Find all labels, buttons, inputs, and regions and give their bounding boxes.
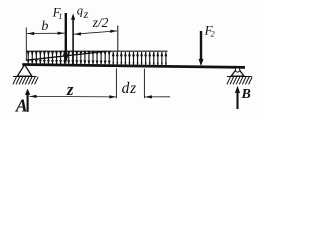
dimension z line — [29, 95, 116, 98]
force F1 arrow — [65, 13, 67, 58]
extension line at section z (above beam) — [117, 26, 119, 52]
dimension z/2 right arrowhead — [110, 30, 117, 33]
extension line at support A / load left edge — [25, 28, 27, 61]
extension line at z+dz (below beam) — [143, 69, 145, 99]
reaction arrow at A — [27, 94, 29, 112]
dimension z right arrowhead — [109, 95, 116, 98]
ground line A — [13, 76, 37, 78]
svg-text:b: b — [41, 19, 48, 34]
resultant qz arrow (upward) — [72, 19, 74, 65]
svg-text:dz: dz — [122, 80, 137, 97]
dimension z/2 line — [74, 31, 117, 34]
ground hatching A — [13, 77, 38, 85]
extension line at z (below beam) — [115, 68, 117, 98]
distributed load arrows — [27, 51, 168, 65]
svg-text:B: B — [241, 87, 251, 102]
ground hatching B — [227, 77, 252, 85]
svg-text:z: z — [66, 80, 74, 99]
svg-text:z: z — [83, 7, 89, 21]
distributed load top line — [26, 50, 167, 52]
dimension z/2 left arrowhead — [74, 32, 81, 35]
svg-text:1: 1 — [58, 11, 62, 21]
load intensity diagonal line — [27, 51, 107, 60]
svg-text:q: q — [77, 3, 83, 17]
ground line B — [227, 76, 252, 78]
svg-text:A: A — [15, 95, 28, 115]
force F2 arrow — [200, 31, 202, 60]
support A (pin) — [17, 65, 32, 77]
dimension b left arrowhead — [27, 32, 34, 35]
reaction arrow at B — [236, 92, 238, 109]
support B (roller) — [231, 68, 244, 77]
dimension b right arrowhead — [58, 32, 65, 35]
beam AB — [22, 65, 245, 68]
svg-text:z/2: z/2 — [92, 15, 109, 30]
roller circle B — [235, 68, 239, 72]
dimension b line — [27, 32, 65, 34]
dimension z left arrowhead — [30, 95, 37, 98]
dimension dz right outside arrow — [145, 96, 170, 98]
